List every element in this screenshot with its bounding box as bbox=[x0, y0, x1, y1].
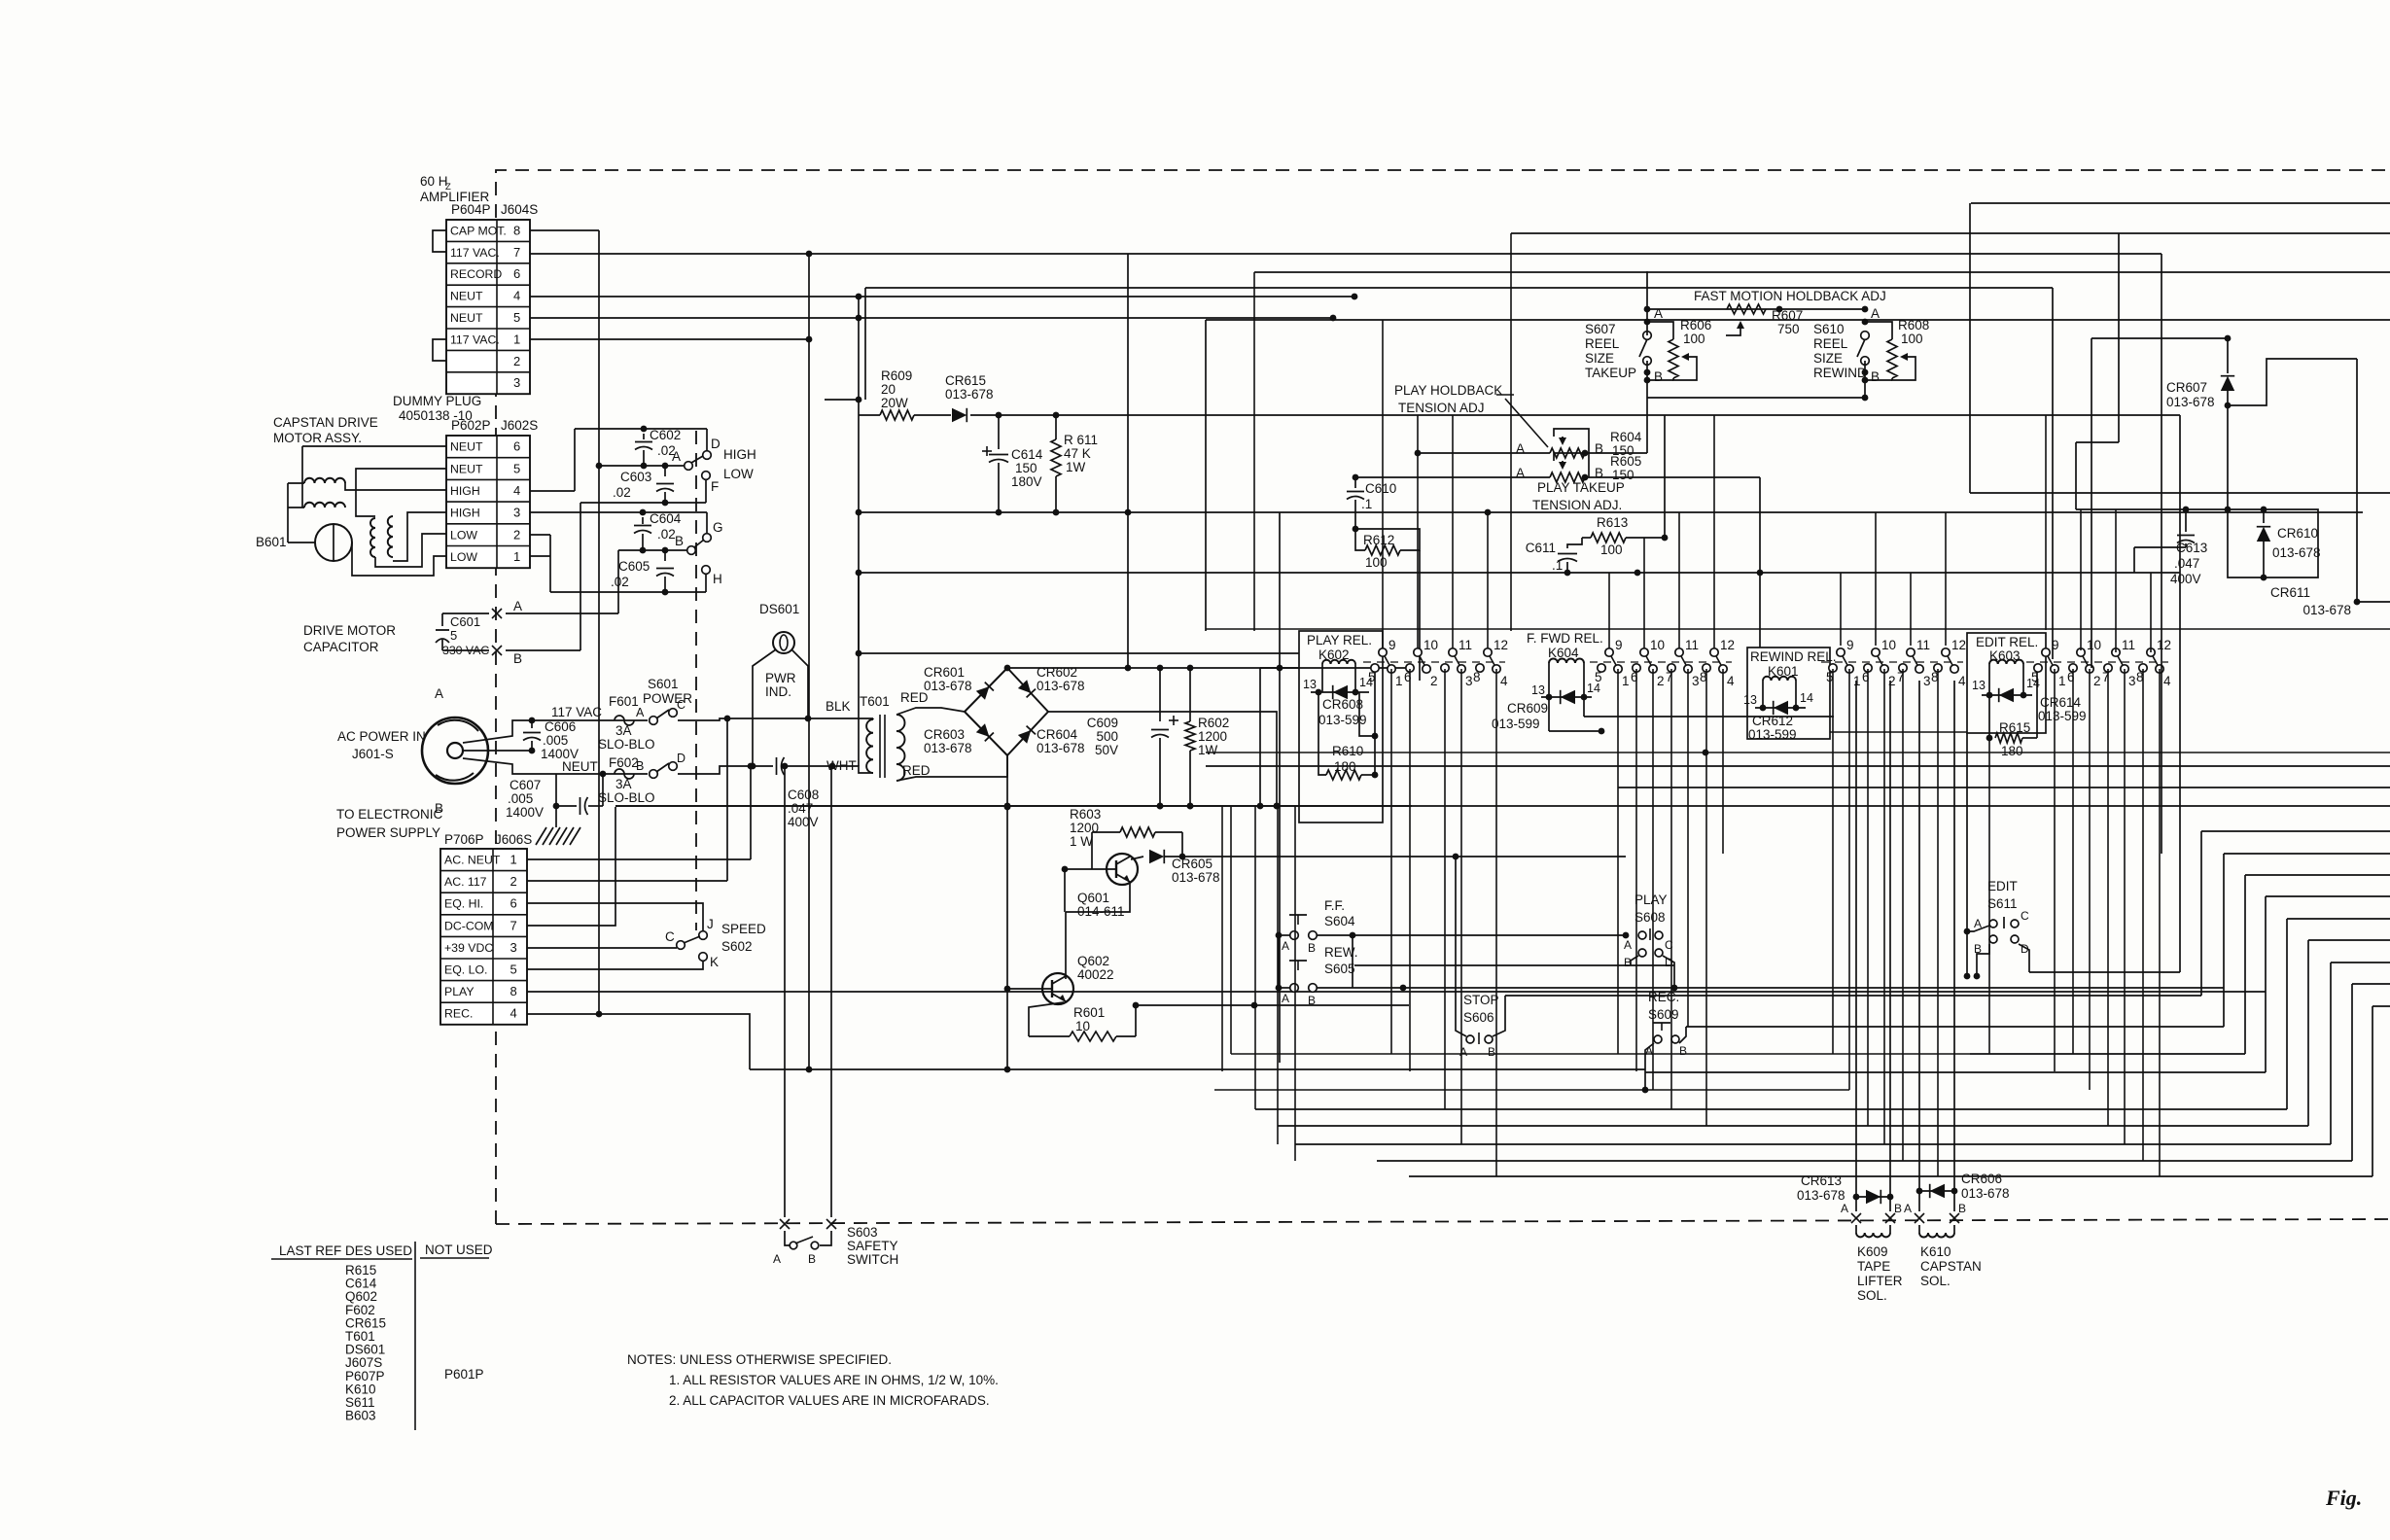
svg-text:CR609: CR609 bbox=[1507, 701, 1548, 716]
svg-text:7: 7 bbox=[513, 245, 520, 260]
svg-text:400V: 400V bbox=[2170, 572, 2201, 586]
svg-text:A: A bbox=[1871, 306, 1880, 321]
svg-text:Q601: Q601 bbox=[1077, 891, 1109, 905]
svg-text:LAST REF DES USED: LAST REF DES USED bbox=[279, 1243, 412, 1258]
svg-text:NEUT: NEUT bbox=[450, 311, 483, 325]
svg-text:R603: R603 bbox=[1070, 807, 1101, 822]
svg-text:P706P: P706P bbox=[444, 832, 484, 847]
svg-text:CAPACITOR: CAPACITOR bbox=[303, 640, 379, 654]
svg-text:C611: C611 bbox=[1526, 541, 1556, 555]
svg-text:12: 12 bbox=[1494, 638, 1508, 652]
svg-text:2: 2 bbox=[510, 874, 517, 889]
svg-text:4: 4 bbox=[1500, 674, 1508, 688]
svg-text:C608: C608 bbox=[788, 787, 819, 802]
svg-text:A: A bbox=[1282, 939, 1289, 953]
svg-text:013-678: 013-678 bbox=[924, 679, 972, 693]
svg-text:TAPE: TAPE bbox=[1857, 1259, 1890, 1274]
svg-text:C602: C602 bbox=[650, 428, 681, 442]
svg-text:CR605: CR605 bbox=[1172, 857, 1213, 871]
svg-text:C: C bbox=[665, 929, 675, 944]
svg-text:J606S: J606S bbox=[495, 832, 532, 847]
svg-text:B: B bbox=[1308, 941, 1316, 955]
svg-text:B: B bbox=[1654, 369, 1663, 384]
svg-text:C610: C610 bbox=[1365, 481, 1396, 496]
svg-text:117 VAC.: 117 VAC. bbox=[450, 332, 500, 346]
svg-text:F602: F602 bbox=[609, 755, 639, 770]
svg-text:R602: R602 bbox=[1198, 716, 1229, 730]
svg-text:5: 5 bbox=[1368, 670, 1376, 684]
svg-text:10: 10 bbox=[1075, 1019, 1090, 1033]
svg-text:1 W: 1 W bbox=[1070, 834, 1093, 849]
svg-text:T601: T601 bbox=[860, 694, 890, 709]
svg-text:S604: S604 bbox=[1324, 914, 1355, 928]
svg-text:10: 10 bbox=[1881, 638, 1896, 652]
svg-text:POWER: POWER bbox=[643, 691, 692, 706]
svg-text:EQ. HI.: EQ. HI. bbox=[444, 897, 483, 911]
svg-text:J602S: J602S bbox=[501, 418, 538, 433]
svg-text:MOTOR ASSY.: MOTOR ASSY. bbox=[273, 431, 362, 445]
svg-text:REEL: REEL bbox=[1585, 336, 1620, 351]
svg-text:2: 2 bbox=[513, 527, 520, 542]
svg-text:013-678: 013-678 bbox=[2166, 395, 2215, 409]
svg-text:3: 3 bbox=[510, 940, 517, 955]
svg-text:DUMMY PLUG: DUMMY PLUG bbox=[393, 394, 481, 408]
svg-text:CR603: CR603 bbox=[924, 727, 965, 742]
svg-text:.1: .1 bbox=[1552, 558, 1563, 573]
svg-text:B: B bbox=[513, 651, 522, 666]
svg-text:3A: 3A bbox=[615, 723, 632, 738]
svg-text:13: 13 bbox=[1531, 683, 1545, 697]
svg-text:CAP MOT.: CAP MOT. bbox=[450, 224, 507, 237]
svg-text:.047: .047 bbox=[788, 801, 813, 816]
svg-text:47 K: 47 K bbox=[1064, 446, 1091, 461]
svg-text:150: 150 bbox=[1015, 461, 1037, 475]
svg-text:C609: C609 bbox=[1087, 716, 1118, 730]
svg-text:PLAY: PLAY bbox=[1634, 892, 1668, 907]
svg-text:013-678: 013-678 bbox=[2302, 603, 2351, 617]
svg-text:B601: B601 bbox=[256, 535, 287, 549]
svg-text:NEUT: NEUT bbox=[562, 759, 598, 774]
svg-text:LOW: LOW bbox=[450, 550, 477, 564]
svg-text:P601P: P601P bbox=[444, 1367, 484, 1382]
svg-text:40022: 40022 bbox=[1077, 967, 1114, 982]
svg-text:CR610: CR610 bbox=[2277, 526, 2318, 541]
svg-text:RED: RED bbox=[902, 763, 931, 778]
svg-text:B: B bbox=[1488, 1045, 1495, 1059]
svg-text:1200: 1200 bbox=[1198, 729, 1227, 744]
svg-text:2: 2 bbox=[2093, 674, 2101, 688]
svg-text:750: 750 bbox=[1777, 322, 1800, 336]
svg-text:DS601: DS601 bbox=[759, 602, 799, 616]
svg-text:60 H: 60 H bbox=[420, 174, 448, 189]
svg-text:.02: .02 bbox=[611, 575, 629, 589]
svg-text:CR604: CR604 bbox=[1037, 727, 1078, 742]
svg-text:6: 6 bbox=[510, 896, 517, 911]
svg-text:+39 VDC: +39 VDC bbox=[444, 941, 493, 955]
svg-text:11: 11 bbox=[1459, 638, 1472, 652]
svg-text:11: 11 bbox=[2122, 638, 2135, 652]
svg-text:C601: C601 bbox=[450, 614, 480, 629]
svg-text:TENSION ADJ: TENSION ADJ bbox=[1398, 401, 1485, 415]
svg-text:K610: K610 bbox=[1920, 1244, 1951, 1259]
svg-text:A: A bbox=[435, 686, 443, 701]
svg-text:B: B bbox=[1958, 1202, 1966, 1215]
svg-text:1: 1 bbox=[513, 332, 520, 346]
svg-text:013-678: 013-678 bbox=[1037, 679, 1085, 693]
svg-text:A: A bbox=[636, 706, 645, 719]
svg-text:A: A bbox=[1624, 938, 1632, 952]
svg-text:R601: R601 bbox=[1073, 1005, 1105, 1020]
svg-text:2. ALL CAPACITOR VALUES AR: 2. ALL CAPACITOR VALUES ARE IN MICROFARA… bbox=[669, 1393, 990, 1408]
svg-text:1: 1 bbox=[1622, 674, 1630, 688]
svg-text:A: A bbox=[672, 449, 681, 464]
svg-text:Q602: Q602 bbox=[1077, 954, 1109, 968]
svg-text:1: 1 bbox=[1395, 674, 1403, 688]
svg-text:SOL.: SOL. bbox=[1857, 1288, 1887, 1303]
svg-text:1: 1 bbox=[510, 853, 517, 867]
svg-text:013-678: 013-678 bbox=[1172, 870, 1220, 885]
svg-text:CR607: CR607 bbox=[2166, 380, 2207, 395]
svg-text:.005: .005 bbox=[508, 791, 533, 806]
svg-text:K: K bbox=[710, 955, 719, 969]
svg-text:REC.: REC. bbox=[444, 1007, 473, 1021]
svg-text:CR612: CR612 bbox=[1752, 714, 1793, 728]
svg-text:013-678: 013-678 bbox=[945, 387, 994, 402]
svg-text:5: 5 bbox=[513, 461, 520, 475]
svg-text:1W: 1W bbox=[1198, 743, 1218, 757]
svg-text:5: 5 bbox=[1595, 670, 1602, 684]
svg-text:R609: R609 bbox=[881, 368, 912, 383]
svg-text:100: 100 bbox=[1901, 332, 1923, 346]
svg-text:CAPSTAN: CAPSTAN bbox=[1920, 1259, 1982, 1274]
svg-text:LOW: LOW bbox=[723, 467, 754, 481]
svg-text:DC-COM: DC-COM bbox=[444, 919, 494, 932]
svg-text:NOTES: UNLESS OTHERWISE SPEC: NOTES: UNLESS OTHERWISE SPECIFIED. bbox=[627, 1352, 892, 1367]
svg-text:.1: .1 bbox=[1361, 497, 1372, 511]
svg-text:117 VAC.: 117 VAC. bbox=[450, 246, 500, 260]
svg-text:330 VAC: 330 VAC bbox=[442, 644, 489, 657]
svg-text:CR615: CR615 bbox=[945, 373, 986, 388]
svg-text:R605: R605 bbox=[1610, 454, 1641, 469]
svg-text:BLK: BLK bbox=[826, 699, 851, 714]
svg-text:F: F bbox=[711, 479, 719, 494]
svg-text:S602: S602 bbox=[721, 939, 753, 954]
svg-text:12: 12 bbox=[1951, 638, 1966, 652]
svg-text:NEUT: NEUT bbox=[450, 462, 483, 475]
svg-text:9: 9 bbox=[1615, 638, 1623, 652]
svg-text:S608: S608 bbox=[1634, 910, 1666, 925]
svg-text:4: 4 bbox=[513, 289, 520, 303]
svg-text:TO ELECTRONIC: TO ELECTRONIC bbox=[336, 807, 443, 822]
svg-text:1W: 1W bbox=[1066, 460, 1086, 474]
svg-text:F601: F601 bbox=[609, 694, 639, 709]
svg-text:B: B bbox=[1894, 1202, 1902, 1215]
svg-text:CAPSTAN DRIVE: CAPSTAN DRIVE bbox=[273, 415, 378, 430]
svg-text:LOW: LOW bbox=[450, 528, 477, 542]
svg-text:K609: K609 bbox=[1857, 1244, 1888, 1259]
svg-text:013-678: 013-678 bbox=[1037, 741, 1085, 755]
svg-text:100: 100 bbox=[1365, 555, 1388, 570]
svg-text:C607: C607 bbox=[510, 778, 541, 792]
svg-text:100: 100 bbox=[1683, 332, 1705, 346]
svg-text:EDIT: EDIT bbox=[1987, 879, 2018, 893]
svg-text:013-678: 013-678 bbox=[1961, 1186, 2010, 1201]
svg-text:S611: S611 bbox=[1987, 896, 2018, 911]
svg-text:10: 10 bbox=[1423, 638, 1438, 652]
svg-text:Fig.: Fig. bbox=[2325, 1486, 2362, 1510]
svg-text:R604: R604 bbox=[1610, 430, 1642, 444]
svg-text:13: 13 bbox=[1743, 693, 1757, 707]
svg-text:C603: C603 bbox=[620, 470, 651, 484]
svg-text:A: A bbox=[1654, 306, 1663, 321]
svg-text:8: 8 bbox=[513, 223, 520, 237]
svg-text:10: 10 bbox=[2087, 638, 2101, 652]
svg-text:SIZE: SIZE bbox=[1585, 351, 1614, 366]
svg-text:1: 1 bbox=[2058, 674, 2066, 688]
svg-text:117 VAC: 117 VAC bbox=[551, 705, 602, 719]
svg-text:13: 13 bbox=[1972, 679, 1986, 692]
svg-text:11: 11 bbox=[1685, 638, 1699, 652]
svg-text:SPEED: SPEED bbox=[721, 922, 766, 936]
svg-text:SLO-BLO: SLO-BLO bbox=[598, 737, 655, 752]
svg-text:RECORD: RECORD bbox=[450, 267, 502, 281]
svg-text:F. FWD REL.: F. FWD REL. bbox=[1527, 631, 1603, 646]
svg-text:SIZE: SIZE bbox=[1813, 351, 1843, 366]
svg-text:180V: 180V bbox=[1011, 474, 1042, 489]
svg-text:B: B bbox=[636, 759, 644, 773]
svg-text:13: 13 bbox=[1303, 678, 1317, 691]
svg-text:S605: S605 bbox=[1324, 962, 1355, 976]
svg-text:HIGH: HIGH bbox=[450, 507, 480, 520]
svg-text:8: 8 bbox=[510, 984, 517, 998]
svg-text:1400V: 1400V bbox=[506, 805, 544, 820]
svg-text:013-599: 013-599 bbox=[1748, 727, 1797, 742]
svg-text:20: 20 bbox=[881, 382, 896, 397]
svg-text:3: 3 bbox=[513, 375, 520, 390]
svg-text:R613: R613 bbox=[1597, 515, 1628, 530]
svg-text:P602P: P602P bbox=[451, 418, 491, 433]
svg-text:F.F.: F.F. bbox=[1324, 898, 1345, 913]
svg-text:013-678: 013-678 bbox=[2272, 545, 2321, 560]
svg-text:3: 3 bbox=[1692, 674, 1700, 688]
svg-text:SAFETY: SAFETY bbox=[847, 1239, 898, 1253]
svg-text:S601: S601 bbox=[648, 677, 679, 691]
svg-text:9: 9 bbox=[1846, 638, 1854, 652]
svg-text:H: H bbox=[713, 572, 722, 586]
svg-text:10: 10 bbox=[1650, 638, 1665, 652]
svg-text:A: A bbox=[1282, 992, 1289, 1005]
svg-text:4: 4 bbox=[510, 1006, 517, 1021]
svg-text:G: G bbox=[713, 520, 723, 535]
svg-text:12: 12 bbox=[2157, 638, 2171, 652]
svg-text:B: B bbox=[1871, 369, 1880, 384]
svg-text:CR608: CR608 bbox=[1322, 697, 1363, 712]
svg-text:R 611: R 611 bbox=[1064, 433, 1098, 447]
svg-text:2: 2 bbox=[1888, 674, 1896, 688]
svg-text:REWIND: REWIND bbox=[1813, 366, 1867, 380]
svg-text:.02: .02 bbox=[657, 527, 676, 542]
svg-text:4: 4 bbox=[1727, 674, 1735, 688]
svg-text:2: 2 bbox=[513, 354, 520, 368]
svg-text:A: A bbox=[1904, 1202, 1912, 1215]
svg-text:D: D bbox=[711, 437, 721, 451]
svg-text:.005: .005 bbox=[543, 733, 568, 748]
svg-text:S603: S603 bbox=[847, 1225, 878, 1240]
svg-text:PWR: PWR bbox=[765, 671, 796, 685]
svg-text:5: 5 bbox=[510, 962, 517, 977]
svg-text:B: B bbox=[1308, 994, 1316, 1007]
svg-text:CR613: CR613 bbox=[1801, 1173, 1842, 1188]
svg-text:PLAY TAKEUP: PLAY TAKEUP bbox=[1537, 480, 1625, 495]
svg-text:SLO-BLO: SLO-BLO bbox=[598, 790, 655, 805]
svg-text:A: A bbox=[773, 1252, 781, 1266]
svg-text:A: A bbox=[513, 599, 522, 613]
svg-text:CR606: CR606 bbox=[1961, 1172, 2002, 1186]
svg-text:TENSION ADJ.: TENSION ADJ. bbox=[1532, 498, 1622, 512]
svg-text:J601-S: J601-S bbox=[352, 747, 394, 761]
svg-text:R612: R612 bbox=[1363, 533, 1394, 547]
svg-text:.047: .047 bbox=[2174, 556, 2199, 571]
svg-text:B603: B603 bbox=[345, 1409, 376, 1423]
svg-text:.02: .02 bbox=[613, 485, 631, 500]
svg-text:R610: R610 bbox=[1332, 744, 1363, 758]
svg-text:1. ALL RESISTOR VALUES ARE: 1. ALL RESISTOR VALUES ARE IN OHMS, 1/2 … bbox=[669, 1373, 999, 1387]
svg-text:4: 4 bbox=[2163, 674, 2171, 688]
svg-text:6: 6 bbox=[513, 266, 520, 281]
svg-text:20W: 20W bbox=[881, 396, 908, 410]
svg-text:50V: 50V bbox=[1095, 743, 1118, 757]
svg-text:EQ. LO.: EQ. LO. bbox=[444, 963, 487, 977]
svg-text:IND.: IND. bbox=[765, 684, 791, 699]
svg-text:P604P: P604P bbox=[451, 202, 491, 217]
svg-text:EDIT REL.: EDIT REL. bbox=[1976, 635, 2038, 649]
svg-text:500: 500 bbox=[1096, 729, 1118, 744]
svg-text:AC POWER IN: AC POWER IN bbox=[337, 729, 426, 744]
svg-text:5: 5 bbox=[2031, 670, 2039, 684]
svg-text:C: C bbox=[2021, 909, 2029, 923]
svg-text:A: A bbox=[1841, 1202, 1848, 1215]
svg-text:5: 5 bbox=[513, 310, 520, 325]
svg-text:LIFTER: LIFTER bbox=[1857, 1274, 1903, 1288]
svg-text:3: 3 bbox=[1923, 674, 1931, 688]
svg-text:HIGH: HIGH bbox=[723, 447, 756, 462]
svg-text:C606: C606 bbox=[545, 719, 576, 734]
svg-text:CR611: CR611 bbox=[2270, 585, 2310, 600]
svg-text:D: D bbox=[677, 752, 685, 765]
svg-text:TAKEUP: TAKEUP bbox=[1585, 366, 1636, 380]
svg-text:11: 11 bbox=[1916, 638, 1930, 652]
svg-text:B: B bbox=[808, 1252, 816, 1266]
svg-text:STOP: STOP bbox=[1463, 993, 1499, 1007]
svg-text:NOT USED: NOT USED bbox=[425, 1242, 493, 1257]
svg-text:SWITCH: SWITCH bbox=[847, 1252, 898, 1267]
svg-text:013-599: 013-599 bbox=[1492, 717, 1540, 731]
svg-text:7: 7 bbox=[510, 918, 517, 932]
svg-text:HIGH: HIGH bbox=[450, 484, 480, 498]
svg-text:B: B bbox=[675, 534, 684, 548]
svg-text:1: 1 bbox=[513, 549, 520, 564]
svg-text:3A: 3A bbox=[615, 777, 632, 791]
svg-text:REEL: REEL bbox=[1813, 336, 1848, 351]
svg-text:SOL.: SOL. bbox=[1920, 1274, 1951, 1288]
svg-text:2: 2 bbox=[1657, 674, 1665, 688]
svg-text:C604: C604 bbox=[650, 511, 682, 526]
svg-text:9: 9 bbox=[1388, 638, 1396, 652]
svg-text:C605: C605 bbox=[618, 559, 650, 574]
svg-text:013-678: 013-678 bbox=[924, 741, 972, 755]
svg-text:180: 180 bbox=[2001, 744, 2023, 758]
svg-text:PLAY REL.: PLAY REL. bbox=[1307, 633, 1372, 647]
svg-text:S607: S607 bbox=[1585, 322, 1616, 336]
svg-text:4: 4 bbox=[513, 483, 520, 498]
svg-text:NEUT: NEUT bbox=[450, 440, 483, 454]
svg-text:PLAY HOLDBACK: PLAY HOLDBACK bbox=[1394, 383, 1502, 398]
svg-text:2: 2 bbox=[1430, 674, 1438, 688]
svg-text:400V: 400V bbox=[788, 815, 819, 829]
svg-text:C614: C614 bbox=[1011, 447, 1043, 462]
svg-text:NEUT: NEUT bbox=[450, 290, 483, 303]
svg-text:5: 5 bbox=[450, 628, 457, 643]
svg-text:013-599: 013-599 bbox=[2038, 709, 2087, 723]
svg-text:CR601: CR601 bbox=[924, 665, 965, 680]
svg-text:4: 4 bbox=[1958, 674, 1966, 688]
svg-text:013-678: 013-678 bbox=[1797, 1188, 1845, 1203]
svg-text:6: 6 bbox=[513, 439, 520, 454]
svg-text:DRIVE MOTOR: DRIVE MOTOR bbox=[303, 623, 396, 638]
svg-text:S606: S606 bbox=[1463, 1010, 1494, 1025]
svg-text:J: J bbox=[707, 917, 714, 931]
svg-text:PLAY: PLAY bbox=[444, 985, 474, 998]
svg-text:AC. NEUT: AC. NEUT bbox=[444, 854, 501, 867]
svg-text:AC. 117: AC. 117 bbox=[444, 875, 487, 889]
svg-text:3: 3 bbox=[1465, 674, 1473, 688]
svg-text:14: 14 bbox=[1800, 691, 1813, 705]
svg-text:FAST MOTION HOLDBACK ADJ: FAST MOTION HOLDBACK ADJ bbox=[1694, 289, 1886, 303]
svg-text:S610: S610 bbox=[1813, 322, 1845, 336]
svg-text:12: 12 bbox=[1720, 638, 1735, 652]
svg-text:B: B bbox=[1679, 1044, 1687, 1058]
svg-text:CR614: CR614 bbox=[2040, 695, 2082, 710]
svg-text:3: 3 bbox=[513, 506, 520, 520]
svg-text:J604S: J604S bbox=[501, 202, 538, 217]
svg-text:POWER SUPPLY: POWER SUPPLY bbox=[336, 825, 440, 840]
svg-text:REW.: REW. bbox=[1324, 945, 1358, 960]
svg-text:8: 8 bbox=[1473, 670, 1481, 684]
svg-text:3: 3 bbox=[2128, 674, 2136, 688]
svg-text:100: 100 bbox=[1600, 542, 1623, 557]
